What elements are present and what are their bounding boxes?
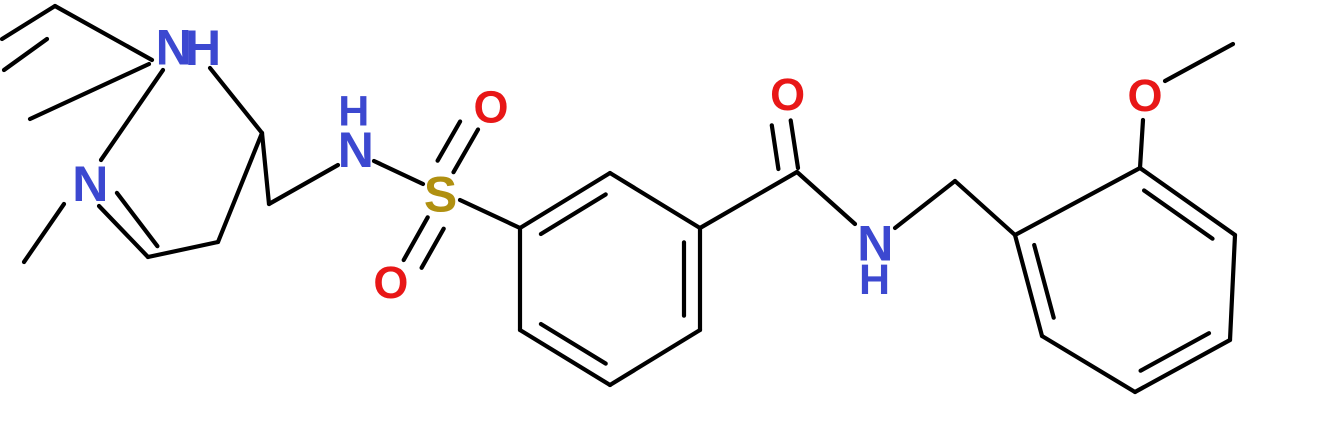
S=O bottom double bond	[404, 217, 428, 260]
benzene edge ll-ul	[518, 228, 522, 330]
bond N2-C3 double	[99, 206, 148, 257]
benzene edge lr-bot	[610, 330, 700, 385]
right ring edge R2-R3 (double)	[1140, 168, 1235, 235]
right ring edge R1-R2	[1015, 168, 1140, 235]
benzene edge bot-ll (double)	[520, 330, 610, 385]
bond CH2-N(sulfonamide)	[269, 165, 338, 204]
bond N1-C5	[210, 68, 262, 133]
svg-text:O: O	[473, 82, 508, 133]
left ring: corner apex bond	[55, 6, 152, 60]
benzene edge ur-lr (double)	[698, 228, 702, 330]
bond O(methoxy)-ring	[1140, 120, 1143, 168]
right ring edge R4-R5 (double)	[1135, 340, 1230, 392]
left ring: N1 to E bond	[30, 64, 149, 119]
C=O double bond	[791, 120, 798, 168]
svg-text:H: H	[859, 256, 890, 304]
svg-text:O: O	[770, 69, 805, 120]
bond O(methoxy)-CH3	[1165, 44, 1233, 81]
svg-text:O: O	[1127, 70, 1162, 121]
right ring edge R5-R6	[1042, 336, 1135, 392]
bond N(amide)-CH2	[895, 181, 955, 228]
S=O top double bond	[454, 130, 479, 173]
bond C(=O)-N(amide)	[797, 172, 855, 224]
benzene edge top-ur	[610, 173, 700, 228]
bond CH2-ring	[955, 181, 1015, 235]
svg-text:O: O	[373, 257, 408, 308]
svg-text:S: S	[424, 167, 457, 223]
bond N1-N2	[101, 70, 163, 160]
bond benzene-C(=O)	[700, 172, 797, 228]
bond C3-C4	[148, 242, 218, 257]
bond C5-CH2	[262, 133, 269, 204]
svg-text:H: H	[185, 20, 221, 76]
svg-text:N: N	[72, 156, 108, 212]
N2 lower-left stub	[24, 204, 64, 262]
bond S-benzene	[460, 200, 520, 228]
svg-text:N: N	[338, 122, 374, 178]
benzene edge ul-top (double)	[520, 173, 610, 228]
right ring edge R6-R1 (double)	[1015, 235, 1042, 336]
bond N(sulfonamide)-S	[374, 161, 423, 184]
bond C4-C5	[218, 133, 262, 242]
right ring edge R3-R4	[1230, 235, 1235, 340]
left ring: corner double bond	[2, 6, 55, 39]
